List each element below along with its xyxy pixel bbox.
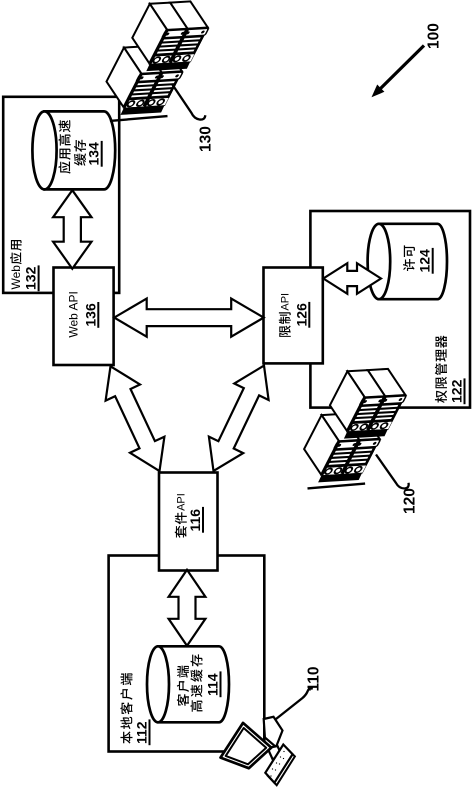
arrow 126-116	[209, 366, 269, 471]
box 112 local client outer	[109, 556, 265, 752]
svg-text:134: 134	[86, 142, 102, 166]
box 132 Web application outer	[3, 97, 119, 293]
svg-text:136: 136	[82, 303, 98, 327]
cylinder 134 app cache	[45, 111, 116, 189]
cylinder 124 permissions	[379, 224, 447, 299]
svg-text:126: 126	[293, 303, 309, 327]
svg-text:Web: Web	[9, 265, 23, 290]
label 112 local client	[120, 731, 132, 743]
computer 110	[221, 717, 295, 785]
arrow 134-136	[53, 190, 91, 269]
box 136 Web API	[54, 268, 114, 366]
box 126 restriction API	[264, 268, 323, 364]
arrow 126-124	[323, 263, 381, 294]
server stack 120	[304, 369, 407, 489]
svg-text:132: 132	[23, 266, 39, 290]
box 116 suite API	[159, 473, 218, 571]
label 122 permission manager	[435, 390, 447, 402]
label 116 suite API	[175, 526, 187, 538]
cylinder 114 client cache	[158, 646, 229, 722]
svg-text:API: API	[176, 493, 188, 511]
svg-text:API: API	[280, 293, 292, 311]
label 114 client cache	[177, 694, 189, 706]
label 126 restriction API	[279, 325, 291, 337]
arrow 116-114	[169, 570, 206, 646]
box 122 permission manager outer	[310, 211, 470, 408]
svg-text:110: 110	[306, 666, 323, 691]
arrow 136-126	[114, 299, 264, 337]
leader 110	[276, 688, 313, 719]
svg-text:Web API: Web API	[67, 291, 81, 337]
svg-text:124: 124	[417, 249, 433, 273]
svg-text:130: 130	[198, 126, 215, 152]
leader 120	[376, 455, 409, 489]
svg-text:122: 122	[449, 379, 465, 403]
svg-text:120: 120	[402, 488, 419, 514]
server stack 130	[107, 1, 210, 121]
arrow 136-116	[106, 366, 165, 471]
svg-text:114: 114	[205, 673, 221, 696]
svg-text:116: 116	[187, 509, 203, 532]
leader 130	[172, 84, 205, 120]
svg-text:100: 100	[426, 23, 443, 49]
label 134 app cache	[58, 162, 70, 174]
svg-text:112: 112	[134, 721, 150, 744]
label 124 permissions	[403, 259, 415, 271]
arrow 100	[378, 46, 424, 92]
